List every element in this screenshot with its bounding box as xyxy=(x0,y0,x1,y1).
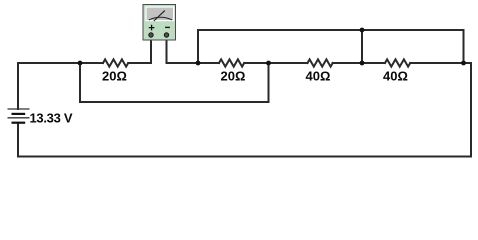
svg-text:40Ω: 40Ω xyxy=(306,69,331,84)
meter needle xyxy=(154,11,165,21)
wire top rail riser at node B xyxy=(197,30,199,63)
meter scale arc xyxy=(149,17,172,20)
wire R2 to R3 xyxy=(244,62,307,64)
wire R1 to meter + lead xyxy=(128,62,151,64)
wire top rail right drop xyxy=(463,30,465,63)
svg-text:40Ω: 40Ω xyxy=(383,69,408,84)
meter plus sign xyxy=(149,25,155,31)
meter display gray face xyxy=(147,8,173,20)
svg-text:20Ω: 20Ω xyxy=(221,69,246,84)
meter terminal + xyxy=(149,33,153,37)
svg-text:13.33 V: 13.33 V xyxy=(30,111,73,126)
wire meter - terminal down xyxy=(166,38,168,63)
wire mid vertical at node C xyxy=(361,30,363,63)
meter display white frame xyxy=(145,6,174,21)
resistor R4 zigzag xyxy=(385,59,410,66)
wire bottom rail xyxy=(18,156,471,158)
battery long plate 2 xyxy=(8,117,30,119)
wire top-left rail to R1 xyxy=(18,62,103,64)
resistor R2 zigzag xyxy=(219,59,244,66)
meter body rect xyxy=(143,5,176,41)
meter U1 body xyxy=(143,5,176,41)
wire R3 to R4 xyxy=(333,62,385,64)
node dot at (268.5,63) xyxy=(266,61,271,66)
resistor R3 zigzag xyxy=(308,59,333,66)
wire R4 to right corner xyxy=(410,62,471,64)
wire lower branch horizontal xyxy=(80,101,269,103)
meter terminal - xyxy=(164,33,168,37)
wire left vertical top (battery + to top-left corner) xyxy=(17,63,19,109)
node dot at (362,63) xyxy=(360,61,365,66)
wire right vertical down xyxy=(470,63,472,157)
node dot at (463.5,63) xyxy=(461,61,466,66)
node dot at (80,63) xyxy=(78,61,83,66)
battery V1 plates xyxy=(8,109,30,123)
wire meter - to R2 xyxy=(167,62,220,64)
meter minus sign xyxy=(165,26,170,28)
wire top rail horizontal xyxy=(198,29,464,31)
wire lower branch left drop xyxy=(79,63,81,102)
wire left vertical bottom (battery - down) xyxy=(17,123,19,157)
node dot at (198,63) xyxy=(196,61,201,66)
svg-text:20Ω: 20Ω xyxy=(102,69,127,84)
battery short plate 2 xyxy=(12,122,26,124)
wire lower branch right rise xyxy=(268,63,270,102)
wire meter + terminal down xyxy=(150,38,152,63)
node dot at (362,30) xyxy=(360,28,365,33)
battery short plate 1 xyxy=(12,113,26,115)
resistor R1 zigzag xyxy=(103,59,128,66)
battery long plate 1 xyxy=(8,108,30,110)
